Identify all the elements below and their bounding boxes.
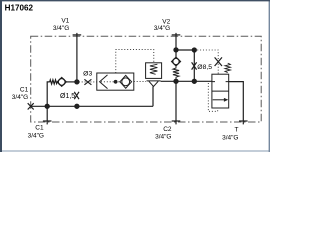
check valve branch wire [47,82,50,106]
svg-text:V1: V1 [61,18,69,25]
svg-text:T: T [235,127,239,134]
port V2 tick [172,34,181,36]
svg-text:3/4"G: 3/4"G [28,132,44,139]
svg-text:3/4"G: 3/4"G [154,25,170,32]
V2 node junction dot [174,48,178,52]
port C1 bottom tick [43,120,52,122]
shuttle valve SH1 body [97,73,134,90]
port V1 tick [73,34,82,36]
orifice O1,5 symbol [74,92,79,99]
port V1 line [76,33,78,82]
relief valve RV1 spring [150,64,158,74]
orifice O8,5b symbol on pilot [215,57,222,66]
orifice O8,5a symbol [192,62,197,69]
C2 rail wire [161,80,212,82]
port C2 line [175,81,177,124]
port C2 tick [172,120,181,122]
svg-text:H17062: H17062 [5,3,34,12]
relief valve RV1 drain wire to C1 line [152,87,154,107]
orifice O1,5 label [60,93,75,100]
port C1 side X symbol [28,103,34,109]
wire CV1 to node A [66,81,77,83]
port V2 label [154,18,171,32]
node C junction dot (orifice line to main) [75,104,79,108]
orifice O8,5a wire [193,50,195,81]
wire PV1 to T port [229,82,244,125]
valve PV1 pilot sense line (dashed) [208,83,217,111]
check valve CV2 spring [173,66,179,81]
orifice O3 symbol [84,79,91,85]
node B junction dot (C1 bottom tee) [45,104,49,108]
valve PV1 flow arrow [213,98,229,102]
svg-text:Ø3: Ø3 [83,70,92,77]
svg-text:C1: C1 [35,125,44,132]
valve PV1 body [212,74,229,108]
orifice O3 label [83,70,92,77]
svg-text:3/4"G: 3/4"G [155,133,171,140]
port T label [222,127,238,142]
shuttle valve SH1 check ball [122,78,130,86]
pilot line to valve PV1 (dotted) [194,50,218,74]
port C2 label [155,126,172,140]
page frame [0,0,270,152]
valve PV1 divider [212,90,229,92]
shuttle valve SH1 check seat diamond [120,75,132,88]
svg-text:C2: C2 [163,126,172,133]
port C1 bottom label [28,125,44,140]
port V2 line [175,33,177,50]
check valve CV2 wire from V2 node [175,50,177,57]
check valve CV1 ball [58,79,65,86]
main C1 line [31,105,153,107]
svg-text:Ø1,5: Ø1,5 [60,93,75,100]
pilot node junction dot [192,48,196,52]
svg-text:C1: C1 [20,87,29,94]
node E junction dot (orifice branch on rail) [192,79,196,83]
port V1 label [53,18,70,32]
shuttle valve SH1 internal pilot line (dotted) [101,81,120,83]
relief valve RV1 poppet funnel [147,81,161,87]
port C1 side label [12,87,29,101]
valve PV1 closed position stubs [212,81,229,83]
port C1 bottom line [46,106,48,124]
pilot line A to shuttle (dotted) [79,81,97,83]
wire V2 node to pilot node [176,49,194,51]
node D junction dot (C2 rail / V2 branch) [174,79,178,83]
valve PV1 spring [225,63,230,73]
svg-text:3/4"G: 3/4"G [53,25,69,32]
shuttle valve SH1 left seat [100,75,108,89]
shuttle valve SH1 ball [114,80,118,84]
node A junction dot [75,80,79,84]
check valve CV2 seat diamond [172,57,181,66]
check valve CV1 seat diamond [57,78,66,87]
pilot line shuttle top to relief vent (dotted) [116,50,154,73]
svg-text:3/4"G: 3/4"G [12,94,28,101]
orifice O8,5 label [197,64,212,71]
manifold boundary (dash-dot envelope) [31,36,262,122]
port T tick [239,120,248,122]
check valve CV1 spring [50,80,58,84]
svg-text:Ø8,5: Ø8,5 [197,64,212,71]
relief valve RV1 body [146,63,162,79]
svg-text:3/4"G: 3/4"G [222,135,238,142]
check valve CV2 ball [173,58,179,64]
pilot line shuttle to relief input (dotted) [134,80,146,82]
